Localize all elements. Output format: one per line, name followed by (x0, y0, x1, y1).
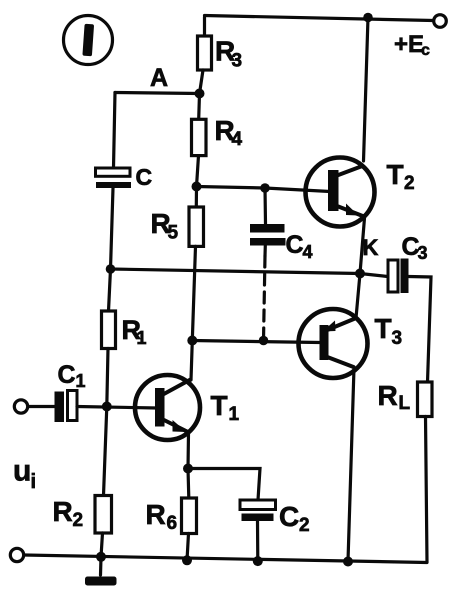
svg-text:2: 2 (299, 515, 310, 536)
svg-text:R: R (146, 499, 166, 530)
svg-text:1: 1 (137, 328, 147, 348)
wire T1 collector up (191, 341, 192, 381)
resistor R4 (192, 94, 207, 187)
label C4 (286, 231, 313, 262)
junction R2 ground (96, 552, 106, 562)
wire T2 collector to top rail (364, 18, 369, 162)
node K junction (355, 269, 365, 279)
svg-text:C: C (279, 501, 299, 532)
wire C1 to T1 base (77, 407, 157, 409)
svg-text:2: 2 (404, 173, 415, 194)
svg-text:+E: +E (394, 31, 424, 58)
label R2 (53, 496, 84, 531)
svg-text:K: K (363, 235, 379, 260)
wire top supply rail (205, 16, 434, 21)
svg-text:C: C (136, 164, 153, 190)
junction input node (102, 402, 112, 412)
svg-text:A: A (150, 64, 168, 92)
svg-text:C: C (286, 231, 304, 259)
svg-text:u: u (13, 455, 31, 488)
input terminal (14, 400, 27, 413)
wire C to bootstrap node (111, 188, 114, 269)
svg-text:4: 4 (232, 129, 243, 150)
svg-text:R: R (53, 496, 73, 527)
resistor R1 (102, 311, 116, 407)
junction R6 rail (182, 555, 192, 565)
svg-text:1: 1 (76, 371, 86, 391)
svg-text:T: T (387, 159, 404, 190)
svg-text:C: C (58, 361, 76, 389)
svg-text:i: i (31, 471, 37, 493)
junction T3 collector rail (343, 557, 353, 567)
svg-text:c: c (421, 42, 430, 59)
capacitor C (96, 168, 132, 188)
badge marker 1 (64, 16, 113, 65)
svg-text:3: 3 (418, 243, 428, 263)
resistor R2 (95, 496, 112, 558)
junction bootstrap left (106, 264, 116, 274)
svg-text:4: 4 (303, 242, 313, 262)
wire C4 dashed to T3 base (264, 246, 266, 341)
label R6 (146, 499, 178, 534)
wire T3 base (192, 341, 320, 343)
junction C4 top (260, 183, 270, 193)
wire T3 collector down to rail (348, 368, 354, 561)
label +Ec (394, 31, 430, 59)
wire bottom rail (24, 555, 427, 563)
wire output C3 to RL (409, 277, 432, 383)
wire bootstrap horizontal to node K (111, 269, 361, 274)
wire node A down to capacitor C (114, 93, 116, 169)
capacitor C4 (250, 188, 286, 246)
label RL (378, 380, 411, 414)
wire bootstrap node down to R1 (109, 269, 111, 311)
capacitor C3 (360, 259, 409, 294)
label T3 (375, 313, 403, 349)
wire T2 base (197, 187, 331, 192)
transistor T3 (299, 309, 368, 378)
wire R5 to T1 collector (192, 246, 195, 340)
label C2 (279, 501, 310, 536)
junction C2 rail (253, 556, 263, 566)
terminal +Ec (434, 15, 447, 28)
label R1 (122, 315, 147, 348)
wire T1 emitter to C2 (188, 469, 260, 501)
wire T2 emitter to node K (360, 218, 365, 274)
svg-text:6: 6 (167, 513, 178, 534)
svg-text:T: T (375, 313, 392, 344)
junction T1 collector T3 base (187, 336, 197, 346)
label C1 (58, 361, 86, 391)
label R5 (151, 208, 179, 244)
svg-text:L: L (399, 393, 411, 414)
svg-text:5: 5 (168, 223, 179, 244)
wire node A horizontal (115, 93, 200, 94)
svg-text:T: T (211, 390, 228, 421)
junction R4 R5 T2-base (192, 182, 202, 192)
capacitor C2 (240, 500, 276, 561)
label R4 (215, 115, 243, 150)
node A junction (195, 89, 205, 99)
label R3 (215, 36, 242, 72)
label C3 (402, 233, 428, 263)
svg-text:1: 1 (229, 404, 240, 425)
capacitor C1 (55, 391, 78, 423)
label T2 (387, 159, 415, 194)
wire T1 emitter down (186, 433, 190, 469)
svg-text:R: R (378, 380, 398, 411)
transistor T2 (306, 158, 375, 227)
label T1 (211, 390, 240, 425)
resistor R3 (198, 17, 212, 94)
junction T1 emitter (183, 464, 193, 474)
wire T3 emitter up to K (356, 274, 360, 319)
wire input node down to R2 (104, 407, 107, 496)
junction top rail T2 collector (363, 13, 373, 23)
resistor R6 (182, 469, 197, 561)
bottom terminal (10, 548, 23, 561)
resistor RL (418, 382, 433, 562)
label ui (13, 455, 36, 494)
junction C4 bottom T3 base (259, 336, 269, 346)
resistor R5 (189, 187, 204, 247)
wire input to C1 (28, 405, 55, 408)
svg-text:3: 3 (392, 328, 403, 349)
ground (85, 557, 117, 586)
svg-text:2: 2 (73, 510, 84, 531)
transistor T1 (135, 375, 200, 440)
svg-text:3: 3 (232, 51, 243, 72)
